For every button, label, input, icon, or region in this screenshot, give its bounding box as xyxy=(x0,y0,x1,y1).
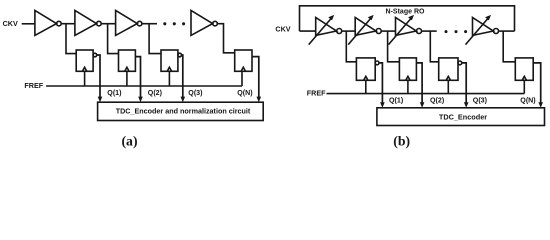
TDC encoder box (b) xyxy=(377,108,545,126)
wire U5 output to U6 input xyxy=(342,30,356,32)
inverter U6 output bubble xyxy=(376,29,381,34)
node tap5: wire down to flip-flop FF5 D input xyxy=(346,31,356,62)
svg-text:Q(3): Q(3) xyxy=(188,89,203,97)
inverter U5 (current-starved) xyxy=(316,18,337,36)
inverter U3 output bubble xyxy=(137,21,142,26)
node tap3: wire down to flip-flop FF3 D input xyxy=(149,24,161,54)
node FREF (a) label xyxy=(24,81,43,90)
flip-flop FF8 clock triangle xyxy=(522,76,526,80)
node Q(2) label (a) xyxy=(148,89,163,97)
wire FF3 Q output to encoder (Q(3) drop) xyxy=(182,55,183,98)
inverter U7 (current-starved) xyxy=(396,18,417,36)
svg-text:Q(2): Q(2) xyxy=(430,97,445,105)
wire U2 output to U3 input xyxy=(101,23,115,25)
wire FREF to FF3 clock xyxy=(168,71,170,86)
wire ring oscillator feedback loop xyxy=(300,6,515,31)
wire U6 output to U7 input xyxy=(381,30,395,32)
svg-text:FREF: FREF xyxy=(307,89,326,98)
inverter U2 output bubble xyxy=(97,21,102,26)
wire U4 output down to flip-flop FF4 D input xyxy=(217,24,234,53)
ellipsis dots ring (b) xyxy=(445,30,468,33)
wire FF4 Q output to encoder (Q(N) drop) xyxy=(252,57,259,98)
wire FREF to FF5 clock xyxy=(365,80,367,93)
wire FREF to FF1 clock xyxy=(84,71,86,86)
svg-text:FREF: FREF xyxy=(24,81,43,90)
caption (b) xyxy=(393,134,410,150)
flip-flop FF6 clock triangle xyxy=(406,76,410,80)
node tap8: wire down to flip-flop FF8 D input xyxy=(503,31,515,62)
node tap6: wire down to flip-flop FF6 D input xyxy=(388,31,400,62)
inverter U4 (Nth stage) xyxy=(191,10,213,35)
wire FREF line (a) xyxy=(46,85,242,87)
wire FREF line (b) xyxy=(327,93,525,95)
flip-flop FF1 output bubble xyxy=(93,53,97,57)
node Q(1) label (b) xyxy=(389,97,404,105)
node Q(3) label (b) xyxy=(473,97,488,105)
inverter U8 tuning arrow xyxy=(466,17,490,45)
node tap1: wire down to flip-flop FF1 D input xyxy=(66,24,76,54)
svg-text:Q(1): Q(1) xyxy=(107,89,122,97)
flip-flop FF2 clock triangle xyxy=(125,67,129,71)
inverter U7 tuning arrow xyxy=(389,17,413,45)
svg-text:TDC_Encoder: TDC_Encoder xyxy=(439,113,487,122)
arrowhead Q(1) (b) xyxy=(380,102,385,108)
arrowhead Q(N) (b) xyxy=(538,102,543,108)
svg-text:Q(N): Q(N) xyxy=(237,89,253,97)
flip-flop FF1 clock triangle xyxy=(82,67,86,71)
flip-flop FF7 xyxy=(439,58,458,80)
svg-text:TDC_Encoder and normalization: TDC_Encoder and normalization circuit xyxy=(116,106,251,115)
wire FREF to FF4 clock xyxy=(241,71,243,86)
node CKV (a) label xyxy=(3,19,18,28)
node Q(2) label (b) xyxy=(430,97,445,105)
wire FREF to FF8 clock xyxy=(523,80,525,93)
flip-flop FF6 xyxy=(399,58,416,80)
wire FREF to FF2 clock xyxy=(126,71,128,86)
wire U8 output to feedback xyxy=(499,30,515,32)
flip-flop FF5 xyxy=(356,58,375,80)
arrowhead Q(3) (b) xyxy=(464,102,469,108)
inverter U7 output bubble xyxy=(417,29,422,34)
inverter U1 output bubble xyxy=(57,21,62,26)
node CKV (b) label xyxy=(275,25,290,34)
inverter U8 (current-starved, Nth) xyxy=(473,18,494,36)
node Q(N) label (b) xyxy=(520,97,536,105)
wire CKV to inverter U1 input xyxy=(22,23,35,25)
wire U1 output to U2 input xyxy=(61,23,75,25)
wire FREF to FF7 clock xyxy=(447,80,449,93)
flip-flop FF1 xyxy=(76,50,93,71)
flip-flop FF3 clock triangle xyxy=(167,67,171,71)
inverter U2 xyxy=(75,10,97,35)
wire U3 output stub xyxy=(142,23,157,25)
flip-flop FF5 output bubble xyxy=(375,61,379,65)
caption (a) xyxy=(121,134,137,150)
inverter U4 output bubble xyxy=(213,21,218,26)
inverter U6 (current-starved) xyxy=(355,18,376,36)
node tap2: wire down to flip-flop FF2 D input xyxy=(108,24,119,54)
svg-text:Q(2): Q(2) xyxy=(148,89,163,97)
node Q(1) label (a) xyxy=(107,89,122,97)
arrowhead Q(2) (b) xyxy=(420,102,425,108)
svg-text:N-Stage RO: N-Stage RO xyxy=(386,9,425,16)
svg-text:Q(N): Q(N) xyxy=(520,97,536,105)
node FREF (b) label xyxy=(307,89,326,98)
wire FF2 Q output to encoder (Q(2) drop) xyxy=(135,57,140,98)
TDC encoder box (a) xyxy=(98,102,264,120)
node tap7: wire down to flip-flop FF7 D input xyxy=(430,31,438,62)
flip-flop FF2 xyxy=(119,50,136,71)
node Q(N) label (a) xyxy=(237,89,253,97)
inverter U1 xyxy=(35,10,57,35)
flip-flop FF8 (Nth) xyxy=(515,58,533,80)
wire FF6 Q output to encoder (Q(2) drop) xyxy=(416,63,422,103)
wire FF7 Q output to encoder (Q(3) drop) xyxy=(462,63,466,103)
TDC encoder box (a) label xyxy=(116,106,251,115)
arrowhead Q(3) xyxy=(181,97,186,103)
svg-text:(b): (b) xyxy=(393,134,410,150)
flip-flop FF3 output bubble xyxy=(178,53,182,57)
svg-text:CKV: CKV xyxy=(3,19,18,28)
flip-flop FF7 output bubble xyxy=(458,61,462,65)
label N-Stage RO xyxy=(386,9,425,16)
inverter U6 tuning arrow xyxy=(348,17,372,45)
wire feedback corner to inverter U5 input xyxy=(300,30,316,32)
wire FREF to FF6 clock xyxy=(407,80,409,93)
svg-text:Q(3): Q(3) xyxy=(473,97,488,105)
wire FF8 Q output to encoder (Q(N) drop) xyxy=(533,63,541,103)
node Q(3) label (a) xyxy=(188,89,203,97)
arrowhead Q(N) xyxy=(257,97,262,103)
svg-text:CKV: CKV xyxy=(275,25,290,34)
arrowhead Q(2) xyxy=(138,97,143,103)
flip-flop FF4 (Nth) xyxy=(235,50,252,71)
TDC encoder box (b) label xyxy=(439,113,487,122)
svg-text:Q(1): Q(1) xyxy=(389,97,404,105)
wire FF1 Q output to encoder (Q(1) drop) xyxy=(97,55,100,98)
flip-flop FF3 xyxy=(161,50,178,71)
arrowhead Q(1) xyxy=(98,97,103,103)
svg-text:(a): (a) xyxy=(121,134,137,150)
inverter U3 xyxy=(116,10,138,35)
wire FF5 Q output to encoder (Q(1) drop) xyxy=(379,63,382,103)
ellipsis dots delay chain (a) xyxy=(163,22,185,25)
wire U7 output stub xyxy=(422,30,437,32)
inverter U8 output bubble xyxy=(494,29,499,34)
flip-flop FF7 clock triangle xyxy=(446,76,450,80)
flip-flop FF5 clock triangle xyxy=(364,76,368,80)
flip-flop FF4 clock triangle xyxy=(241,67,245,71)
inverter U5 output bubble xyxy=(337,29,342,34)
inverter U5 tuning arrow xyxy=(309,17,333,45)
